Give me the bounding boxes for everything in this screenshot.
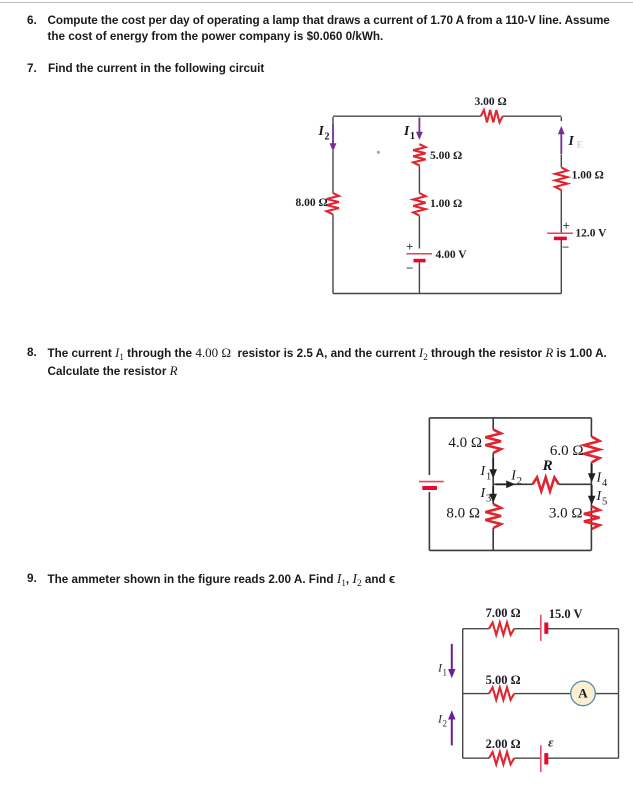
svg-text:5.00 Ω: 5.00 Ω xyxy=(430,150,462,162)
svg-text:−: − xyxy=(406,260,413,275)
svg-text:2.00 Ω: 2.00 Ω xyxy=(486,737,521,751)
svg-text:R: R xyxy=(542,458,553,474)
svg-text:1.00 Ω: 1.00 Ω xyxy=(430,198,462,210)
svg-text:12.0 V: 12.0 V xyxy=(575,227,607,239)
svg-text:4.00 V: 4.00 V xyxy=(436,249,468,261)
svg-text:5.00 Ω: 5.00 Ω xyxy=(486,673,521,687)
svg-text:8.00 Ω: 8.00 Ω xyxy=(296,197,328,209)
svg-text:3: 3 xyxy=(486,493,491,504)
svg-text:+: + xyxy=(563,218,570,233)
svg-text:1: 1 xyxy=(443,668,448,678)
svg-text:−: − xyxy=(562,240,569,255)
svg-text:I: I xyxy=(568,133,575,148)
svg-text:7.00 Ω: 7.00 Ω xyxy=(486,606,521,620)
svg-text:I: I xyxy=(403,123,410,138)
svg-text:1: 1 xyxy=(486,472,491,483)
svg-text:E: E xyxy=(577,141,583,151)
svg-text:ε: ε xyxy=(548,735,554,750)
svg-text:6.0 Ω: 6.0 Ω xyxy=(550,443,584,459)
svg-text:1.00 Ω: 1.00 Ω xyxy=(572,170,604,182)
svg-text:2: 2 xyxy=(517,476,522,487)
svg-text:15.0 V: 15.0 V xyxy=(549,607,583,621)
svg-text:4: 4 xyxy=(602,478,608,489)
svg-text:I: I xyxy=(318,123,325,138)
svg-text:2: 2 xyxy=(325,131,330,142)
svg-text:8.0 Ω: 8.0 Ω xyxy=(446,506,480,522)
svg-text:4.0 Ω: 4.0 Ω xyxy=(448,435,482,451)
svg-text:3.00 Ω: 3.00 Ω xyxy=(475,96,507,108)
svg-text:1: 1 xyxy=(410,131,415,142)
svg-text:3.0 Ω: 3.0 Ω xyxy=(549,506,583,522)
svg-text:A: A xyxy=(578,686,588,701)
svg-text:+: + xyxy=(406,239,413,254)
svg-text:5: 5 xyxy=(602,497,607,508)
svg-text:2: 2 xyxy=(443,718,448,728)
